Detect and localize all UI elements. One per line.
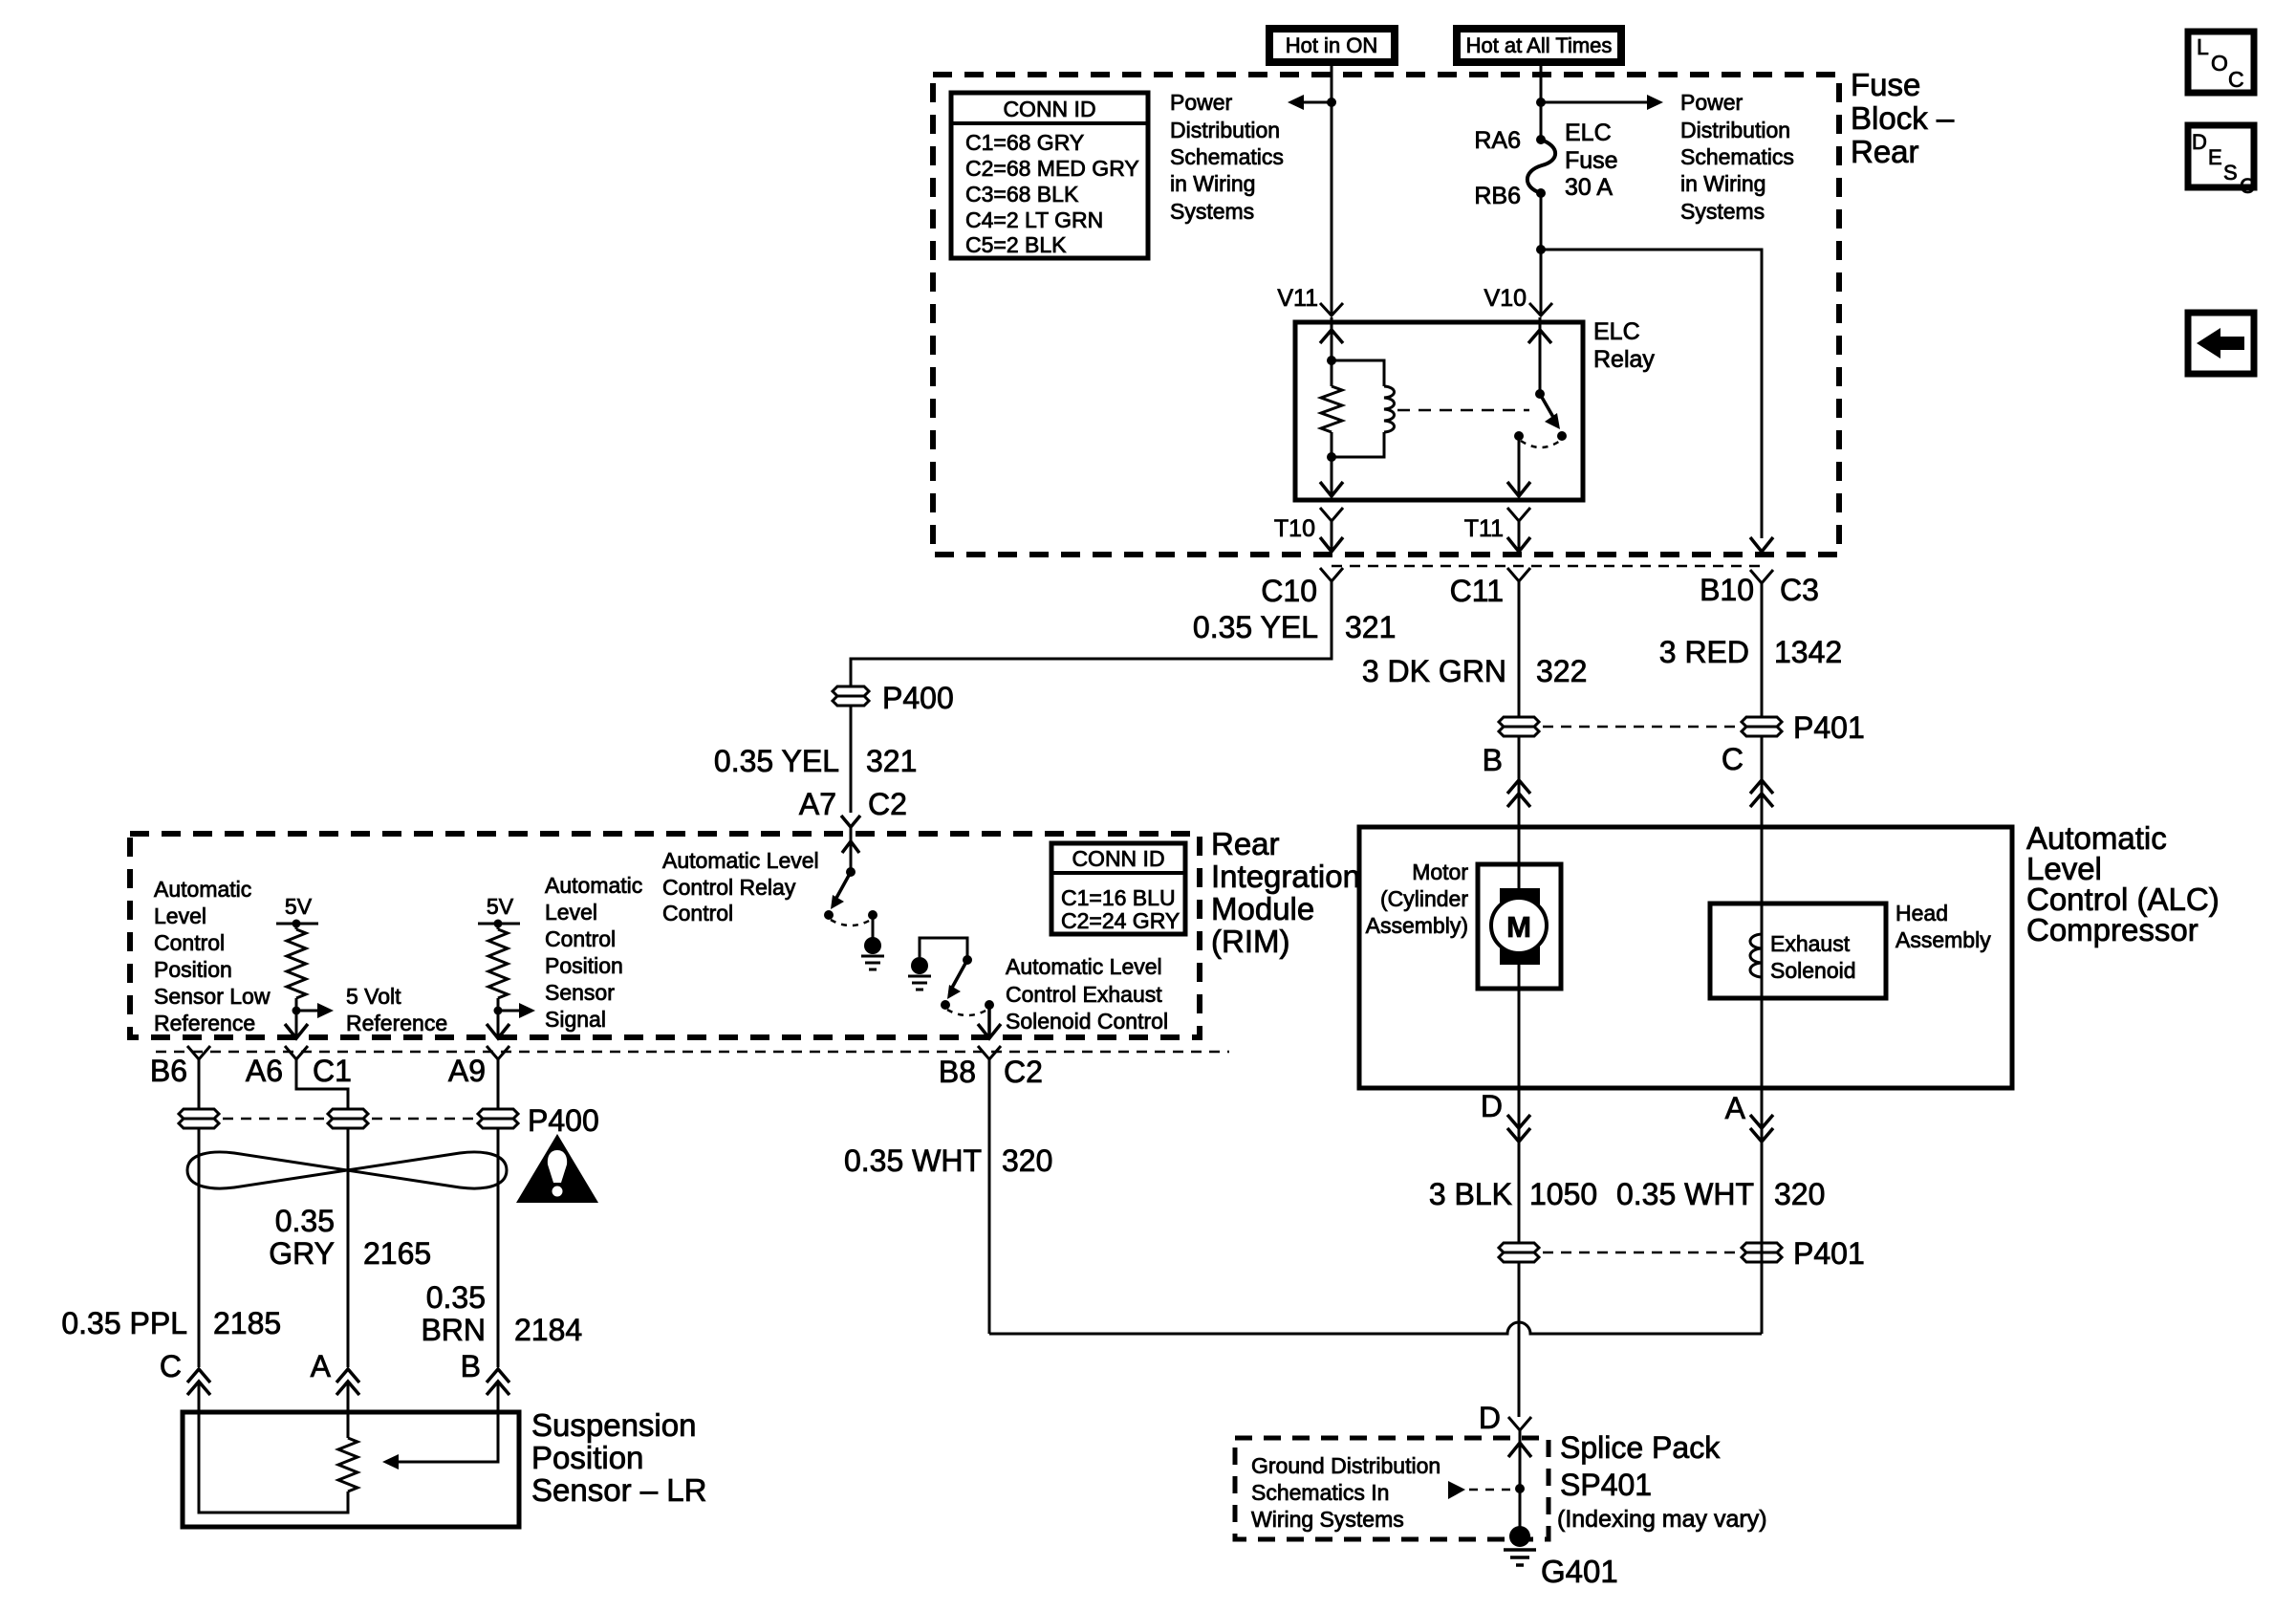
wire exhaust control out B8 [987,1005,991,1037]
svg-text:Schematics In: Schematics In [1251,1480,1389,1505]
svg-text:Systems: Systems [1680,199,1765,224]
svg-text:Reference: Reference [346,1011,447,1035]
contact left relay control [824,910,834,920]
svg-text:Systems: Systems [1170,199,1254,224]
relay switch arm [1540,394,1560,429]
arrow down to B8 [978,1024,1001,1038]
connector chevron A9 [487,1046,509,1059]
svg-text:E: E [2208,145,2222,169]
svg-text:0.35 YEL: 0.35 YEL [1193,610,1318,644]
connector P400 on A wire [328,1109,368,1128]
wire to ground [1519,1489,1522,1530]
dashed mechanical link [1397,409,1529,412]
svg-text:M: M [1506,910,1531,944]
dashed link P401 top [1543,726,1738,729]
wire B into compressor [1518,736,1521,864]
svg-text:A6: A6 [246,1054,283,1088]
arrow down to T10 [1320,482,1343,496]
svg-text:3 DK GRN: 3 DK GRN [1362,654,1506,688]
wire C3 to P401 [1761,583,1764,717]
wire into splice box [1519,1430,1522,1489]
label Automatic Level Control Position Sensor Low Reference [154,877,271,1035]
double chevron C [1750,780,1773,807]
svg-text:Suspension: Suspension [531,1407,696,1443]
5V rail left [276,923,318,925]
wire C into compressor [1761,736,1764,903]
svg-text:D: D [1481,1089,1503,1123]
wire into RIM [850,827,853,872]
ground ref arrow [1448,1481,1513,1499]
svg-text:2165: 2165 [363,1236,431,1271]
svg-text:Assembly): Assembly) [1366,913,1468,938]
arrow T10 at boundary [1320,537,1343,552]
svg-text:Fuse: Fuse [1565,147,1618,174]
wire signal out [497,1011,500,1037]
relay contact right [1557,431,1567,441]
svg-text:Level: Level [154,903,206,928]
switch arm exhaust control [947,960,967,999]
label ELC Fuse 30 A [1565,120,1618,201]
svg-text:Motor: Motor [1412,860,1468,884]
wiper arrow sensor [382,1412,498,1469]
node coil top [1327,356,1336,365]
CONN ID table (fuse block) [951,93,1148,258]
thin dashed connector line C10-C11-B10 [1332,565,1762,568]
wire motor to box bottom [1518,989,1521,1088]
svg-text:Ground Distribution: Ground Distribution [1251,1453,1440,1478]
wire solenoid A down [1761,1088,1764,1334]
wire contact to ground dot [872,915,875,938]
wire motor D down [1518,1088,1521,1243]
svg-text:Module: Module [1211,891,1314,926]
wire switch out T11 [1518,436,1521,495]
svg-text:V11: V11 [1277,285,1318,312]
Hot at All Times box [1457,29,1621,62]
svg-text:Sensor – LR: Sensor – LR [531,1472,706,1508]
switch arm relay control [831,872,851,909]
connector P401 on BLK wire [1499,1243,1539,1262]
text power distribution left [1170,90,1284,224]
dashed link P401 bottom [1543,1252,1738,1254]
svg-text:Block –: Block – [1851,100,1955,136]
wire C inside [199,1412,348,1513]
connector chevron T10 [1320,508,1343,521]
svg-text:Solenoid Control: Solenoid Control [1006,1009,1168,1034]
svg-text:Signal: Signal [545,1007,606,1032]
wire Hot at All Times feed [1540,63,1543,140]
label Automatic Level Control Position Sensor Signal [545,873,642,1032]
node junction on Hot-at-all-times wire [1536,98,1546,107]
svg-text:C: C [1722,742,1744,776]
exhaust solenoid box [1710,903,1886,998]
svg-text:321: 321 [1345,610,1396,644]
fuse ELC 30A [1527,135,1555,198]
svg-text:0.35 YEL: 0.35 YEL [714,744,839,778]
dashed link P400 b [372,1118,474,1121]
wire A9 to P400 [497,1059,500,1109]
label Splice Pack SP401 [1557,1430,1767,1533]
wire A into sensor box [347,1382,350,1412]
ELC relay box [1295,322,1583,500]
label 0.35 GRY 2165 [269,1204,431,1271]
svg-text:5V: 5V [285,894,313,919]
svg-text:320: 320 [1002,1143,1052,1178]
connector P401 on GRN wire [1499,717,1539,736]
connector P400 on B6 wire [179,1109,219,1128]
fuse block dashed box [933,75,1839,555]
label ELC Relay [1593,318,1655,373]
wire 321 YEL C10 down and left [851,581,1332,686]
ground relay control [861,937,884,969]
double chevron D [1507,1115,1530,1142]
contact right relay control [868,910,877,920]
svg-text:GRY: GRY [269,1236,335,1271]
arrow up into relay right [1528,330,1551,343]
svg-text:C1=16 BLU: C1=16 BLU [1061,885,1176,910]
motor [1478,864,1561,989]
svg-text:in Wiring: in Wiring [1680,171,1765,196]
5V rail right [478,923,520,925]
wire solenoid to box bottom [1761,998,1764,1088]
coil relay [1332,360,1395,457]
svg-text:Rear: Rear [1211,826,1280,861]
svg-text:Distribution: Distribution [1170,118,1280,142]
connector P401 on RED wire [1742,717,1782,736]
wire C11 to P401 [1518,581,1521,717]
node 5V left [292,920,301,928]
connector chevron B8 C2 [978,1046,1001,1059]
wire B6 to P400 [198,1059,201,1109]
svg-text:Distribution: Distribution [1680,118,1790,142]
svg-text:Automatic Level: Automatic Level [1006,954,1162,979]
svg-text:Control: Control [545,926,616,951]
svg-text:(Cylinder: (Cylinder [1380,886,1468,911]
contact right exhaust control [985,1000,994,1010]
svg-text:3 BLK: 3 BLK [1429,1177,1512,1211]
arrow up into relay left [1320,330,1343,343]
svg-text:BRN: BRN [421,1313,486,1347]
svg-text:Integration: Integration [1211,859,1360,894]
wire B6 below P400 [198,1128,201,1367]
wire ground to pivot exhaust [920,938,967,960]
svg-text:Assembly: Assembly [1895,927,1991,952]
resistor relay [1321,360,1342,457]
svg-text:Fuse: Fuse [1851,67,1920,102]
arrow up inside splice [1508,1443,1531,1457]
svg-text:P400: P400 [882,681,954,715]
svg-text:ELC: ELC [1593,318,1640,345]
svg-text:0.35 PPL: 0.35 PPL [61,1306,187,1340]
wire B8 down [988,1059,991,1334]
svg-text:P400: P400 [528,1103,599,1138]
ground G401 [1504,1526,1536,1565]
arrow B10 wire into boundary [1750,537,1773,552]
wire branch to B10 [1541,250,1762,538]
wire T10 to boundary [1331,521,1333,552]
svg-text:B: B [461,1349,481,1383]
node signal tap [494,1007,503,1015]
svg-text:5V: 5V [487,894,514,919]
svg-text:CONN ID: CONN ID [1072,846,1164,871]
svg-text:3 RED: 3 RED [1659,635,1749,669]
svg-text:SP401: SP401 [1560,1468,1652,1502]
svg-text:0.35 WHT: 0.35 WHT [844,1143,982,1178]
wire coil out T10 [1331,457,1333,495]
wire A below P400 [347,1128,350,1367]
svg-text:C3: C3 [1780,573,1819,607]
svg-text:(RIM): (RIM) [1211,924,1289,959]
CONN ID table (RIM) [1051,843,1185,934]
svg-text:Control Relay: Control Relay [662,875,796,900]
label Ground Distribution Schematics In Wiring Systems [1251,1453,1440,1532]
label Automatic Level Control Exhaust Solenoid Control [1006,954,1168,1034]
svg-text:Position: Position [545,953,623,978]
svg-text:O: O [2211,51,2228,76]
connector chevron A7 C2 [841,816,860,827]
svg-text:C2: C2 [1004,1055,1043,1089]
connector chevron A6 C1 [285,1046,308,1059]
arrow down low ref [285,1024,308,1038]
wire B into sensor box [497,1382,500,1412]
wire fuse output [1540,193,1543,316]
svg-text:ELC: ELC [1565,120,1612,146]
svg-text:C2=68 MED GRY: C2=68 MED GRY [965,156,1139,181]
svg-text:C: C [2228,67,2244,92]
svg-text:Control Exhaust: Control Exhaust [1006,982,1162,1007]
svg-text:C: C [2240,174,2255,198]
connector chevron C11 [1507,568,1530,581]
svg-text:T11: T11 [1464,515,1504,542]
svg-text:Automatic: Automatic [545,873,642,898]
svg-text:RB6: RB6 [1474,183,1521,209]
svg-text:320: 320 [1774,1177,1825,1211]
arrow down to T11 [1507,482,1530,496]
svg-text:Rear: Rear [1851,134,1919,169]
svg-text:C10: C10 [1261,574,1317,608]
svg-text:C11: C11 [1450,574,1504,608]
arrow 5 volt reference [296,1003,334,1018]
svg-text:322: 322 [1536,654,1587,688]
svg-text:C1=68 GRY: C1=68 GRY [965,130,1084,155]
svg-text:Sensor: Sensor [545,980,615,1005]
connector chevron B6 [187,1046,210,1059]
svg-text:(Indexing may vary): (Indexing may vary) [1557,1506,1767,1533]
label Suspension Position Sensor - LR [531,1407,706,1508]
LOC box [2188,32,2254,93]
svg-text:321: 321 [866,744,917,778]
svg-text:0.35 WHT: 0.35 WHT [1616,1177,1754,1211]
wire coil input V11 [1331,317,1333,360]
wire T11 to boundary [1518,521,1521,552]
thin dashed connector line RIM bottom [156,1051,1229,1054]
svg-text:G401: G401 [1541,1554,1618,1589]
arrow signal [498,1003,535,1018]
label Head Assembly [1895,901,1991,952]
dashed throw arc [1521,441,1560,447]
svg-text:C1: C1 [313,1054,352,1088]
svg-text:in Wiring: in Wiring [1170,171,1255,196]
svg-text:2184: 2184 [514,1313,582,1347]
wire C into sensor box [198,1382,201,1412]
svg-text:5 Volt: 5 Volt [346,984,401,1009]
svg-text:C: C [160,1349,182,1383]
label 0.35 PPL 2185 [61,1306,281,1340]
svg-text:C4=2 LT GRN: C4=2 LT GRN [965,207,1103,232]
svg-text:Automatic Level: Automatic Level [662,848,819,873]
svg-text:D: D [1479,1401,1501,1435]
svg-text:B6: B6 [150,1054,187,1088]
double chevron A [1750,1115,1773,1142]
node coil bottom [1327,452,1336,462]
contact left exhaust control [941,1000,950,1010]
svg-text:2185: 2185 [213,1306,281,1340]
svg-text:A7: A7 [799,787,836,821]
svg-text:Reference: Reference [154,1011,255,1035]
svg-text:0.35: 0.35 [275,1204,335,1238]
svg-text:B8: B8 [939,1055,976,1089]
warning triangle [516,1134,598,1203]
svg-text:P401: P401 [1793,1236,1865,1271]
svg-text:B10: B10 [1700,573,1754,607]
svg-text:A9: A9 [448,1054,486,1088]
double chevron B sensor [487,1369,509,1395]
sensor box [183,1412,519,1527]
dashed throw arc relay control [831,920,871,925]
wire BLK through crossing [1518,1262,1521,1417]
text power distribution right [1680,90,1794,224]
arrow up relay control [842,841,859,853]
connector chevron B10 C3 [1750,570,1773,583]
svg-text:RA6: RA6 [1474,127,1521,154]
svg-text:Control: Control [154,930,225,955]
dashed link P400 a [223,1118,324,1121]
label Exhaust Solenoid [1770,931,1856,983]
wire Hot in ON feed [1331,63,1333,316]
svg-text:Power: Power [1170,90,1233,115]
svg-text:Power: Power [1680,90,1744,115]
double chevron A sensor [336,1369,359,1395]
dashed throw arc exhaust control [947,1010,987,1015]
left power distribution arrow [1288,95,1332,110]
ground exhaust solenoid control [908,957,931,990]
resistor low reference [287,924,306,1011]
svg-text:C5=2 BLK: C5=2 BLK [965,232,1067,257]
connector P400 on B wire [478,1109,518,1128]
svg-text:L: L [2197,34,2209,59]
svg-text:Wiring Systems: Wiring Systems [1251,1507,1404,1532]
label Motor (Cylinder Assembly) [1366,860,1469,938]
connector chevron V11 [1320,303,1343,316]
label 0.35 BRN 2184 [421,1280,582,1347]
svg-text:D: D [2192,130,2207,154]
resistor position signal [488,924,508,1011]
svg-text:0.35: 0.35 [426,1280,486,1315]
connector chevron T11 [1507,508,1530,521]
node junction below fuse [1536,245,1546,254]
connector P401 stub right [1742,1243,1782,1262]
right power distribution arrow [1541,95,1663,110]
svg-text:A: A [311,1349,332,1383]
svg-text:Compressor: Compressor [2026,912,2199,947]
svg-text:1050: 1050 [1529,1177,1597,1211]
RIM dashed box [130,834,1200,1037]
svg-text:Schematics: Schematics [1170,144,1284,169]
DESC box [2188,125,2255,198]
svg-text:C2: C2 [868,787,907,821]
svg-text:Hot at All Times: Hot at All Times [1466,33,1613,57]
svg-text:1342: 1342 [1774,635,1842,669]
double chevron C sensor [187,1369,210,1395]
double chevron B [1507,780,1530,807]
wire 321 YEL to RIM [850,706,853,813]
switch pivot relay control [846,867,856,877]
svg-text:T10: T10 [1274,515,1315,542]
Hot in ON box [1269,29,1395,62]
svg-text:Head: Head [1895,901,1948,925]
connector chevron C10 [1320,568,1343,581]
svg-text:Hot in ON: Hot in ON [1286,33,1378,57]
wire low ref out [295,1011,298,1037]
connector chevron V10 [1529,303,1552,316]
svg-text:C3=68 BLK: C3=68 BLK [965,182,1079,207]
svg-text:Relay: Relay [1593,346,1655,373]
wire A6/C1 jog to P400 [296,1059,348,1109]
arrow T11 at boundary [1507,537,1530,552]
svg-text:Solenoid: Solenoid [1770,958,1856,983]
svg-text:Exhaust: Exhaust [1770,931,1851,956]
crossover bowtie [187,1152,507,1188]
svg-text:Level: Level [545,900,597,925]
splice node [1515,1484,1525,1493]
wire switch input V10 [1539,317,1542,394]
ALC compressor box [1359,827,2012,1088]
svg-text:P401: P401 [1793,710,1865,745]
svg-text:Control: Control [662,901,733,925]
svg-text:S: S [2223,161,2238,185]
label 5 Volt Reference [346,984,447,1035]
svg-text:V10: V10 [1484,285,1527,312]
wire WHT horizontal with hop [989,1322,1762,1334]
node junction on Hot-in-ON wire [1327,98,1336,107]
back-arrow box [2188,313,2254,374]
svg-text:C2=24 GRY: C2=24 GRY [1061,908,1180,933]
exhaust solenoid coil [1750,903,1762,998]
svg-text:Position: Position [531,1440,643,1475]
switch pivot exhaust control [963,955,972,965]
node 5 volt ref tap [292,1007,301,1015]
svg-text:Automatic: Automatic [154,877,251,902]
connector chevron D splice [1508,1417,1531,1430]
label Automatic Level Control Relay Control [662,848,819,925]
svg-text:Position: Position [154,957,232,982]
svg-text:A: A [1725,1091,1746,1125]
wire B below P400 [497,1128,500,1367]
svg-text:30 A: 30 A [1565,174,1613,201]
svg-text:B: B [1483,743,1503,777]
resistor sensor [338,1412,357,1491]
label Automatic Level Control (ALC) Compressor [2026,820,2220,947]
node 5V right [494,920,503,928]
relay switch pivot [1535,389,1545,399]
arrow down signal [487,1024,509,1038]
splice pack dashed box [1235,1438,1549,1539]
relay contact left [1514,431,1524,441]
label Rear Integration Module (RIM) [1211,826,1360,959]
label Fuse Block - Rear [1851,67,1955,169]
svg-text:Sensor Low: Sensor Low [154,984,271,1009]
svg-text:Splice Pack: Splice Pack [1560,1430,1721,1465]
svg-text:Schematics: Schematics [1680,144,1794,169]
